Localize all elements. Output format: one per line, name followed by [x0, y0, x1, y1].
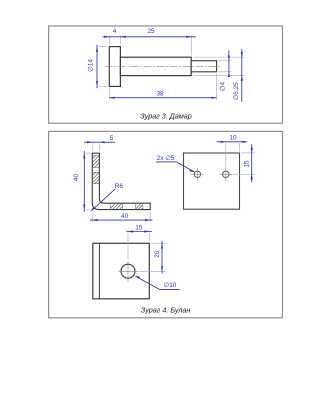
svg-text:R6: R6: [115, 183, 124, 190]
hole right d5: [223, 171, 229, 177]
extension lines dim 5: [92, 144, 99, 152]
hatch lines horizontal leg band2: [136, 203, 143, 209]
dim line dia6.25: [241, 49, 243, 102]
dim line 4 and 25: [103, 36, 197, 38]
arrow at 225.8 pointing right: [221, 141, 226, 143]
arrow at top pointing up: [83, 153, 85, 158]
arrow at 109.3 pointing left: [109, 97, 114, 99]
hatch lines vertical leg band1: [92, 156, 99, 168]
extension lines dim 10: [226, 143, 240, 168]
arrow at bottom pointing down: [96, 81, 98, 86]
arrow above rod pointing down: [228, 56, 230, 61]
arrow at left pointing left: [92, 219, 97, 221]
arrow at bottom pointing down: [83, 204, 85, 209]
arrow at bottom pointing down: [161, 266, 163, 271]
arrow above pointing down: [251, 148, 253, 153]
bolt head: [109, 47, 120, 87]
svg-text:Зураг 4. Булан: Зураг 4. Булан: [141, 305, 191, 314]
arrow at 128 pointing left: [128, 230, 133, 232]
arrow at 99.4 pointing left: [99, 141, 104, 143]
extension lines dim 15 right plate: [232, 153, 255, 174]
arrow at 120.4 pointing left: [120, 36, 125, 38]
svg-text:25: 25: [147, 28, 155, 35]
arrow at 92.25 pointing right: [87, 141, 92, 143]
svg-text:∅4: ∅4: [220, 81, 227, 91]
arrow at top pointing up: [96, 47, 98, 52]
dim line 15 right plate: [251, 144, 253, 182]
dim line 38: [109, 97, 216, 99]
svg-text:∅10: ∅10: [164, 282, 177, 289]
svg-text:2x ∅5: 2x ∅5: [157, 155, 175, 162]
dim line dia14: [96, 45, 98, 88]
bent leg edge line: [98, 243, 100, 298]
hatch lines horizontal leg band1: [110, 203, 122, 209]
dim line dia4: [228, 51, 230, 77]
arrow below pointing up: [251, 174, 253, 179]
svg-text:40: 40: [121, 213, 129, 220]
extension lines dim 38: [109, 74, 216, 100]
svg-text:38: 38: [156, 91, 164, 98]
bolt end rod d4: [191, 61, 216, 72]
svg-text:5: 5: [110, 135, 114, 142]
arrow at 239.5 pointing left: [240, 141, 245, 143]
frame box figure 3: [49, 26, 283, 123]
extension lines dim 20: [140, 243, 166, 271]
svg-text:15: 15: [244, 160, 251, 168]
arrow above shaft pointing down: [241, 52, 243, 57]
svg-text:4: 4: [113, 28, 117, 35]
arrow at 216.6 pointing right: [211, 97, 216, 99]
bottom plate outline: [93, 243, 150, 298]
dim line 5: [84, 141, 115, 143]
arrow at right pointing right: [145, 219, 150, 221]
extension lines dia14: [99, 47, 108, 87]
bolt shaft d6.25: [120, 57, 191, 75]
arrow at 191.3 pointing right: [186, 36, 191, 38]
extension lines dim 40 left: [86, 153, 91, 209]
extension lines top dims: [109, 35, 191, 55]
arrow below rod pointing up: [228, 72, 230, 77]
center cross hole right: [220, 168, 232, 180]
arrow at 109.3 pointing right: [104, 36, 109, 38]
svg-text:10: 10: [229, 135, 237, 142]
svg-text:∅14: ∅14: [88, 59, 95, 72]
dim line 40 bottom: [90, 219, 153, 221]
hole d10: [121, 264, 135, 278]
center cross hole left: [191, 168, 203, 180]
svg-text:20: 20: [154, 250, 161, 258]
L-angle outline: [92, 153, 150, 209]
plate with two holes: [184, 153, 240, 209]
dim line 10: [217, 141, 248, 143]
arrow at top pointing up: [161, 243, 163, 248]
svg-text:15: 15: [135, 225, 143, 232]
svg-text:∅6.25: ∅6.25: [233, 82, 240, 100]
hatch band separators vertical leg: [92, 156, 143, 210]
extension lines dim 15 bottom plate: [128, 233, 149, 260]
hatch lines vertical leg band2: [92, 172, 99, 183]
svg-text:40: 40: [73, 174, 80, 182]
arrow below shaft pointing up: [241, 76, 243, 81]
dim line 40 left: [83, 151, 85, 212]
center cross hole d10: [119, 261, 139, 282]
extension lines right dims: [194, 57, 245, 75]
frame box figure 4: [49, 131, 283, 317]
arrow at 149.3 pointing right: [144, 230, 149, 232]
svg-text:Зураг 3. Дамар: Зураг 3. Дамар: [140, 112, 192, 121]
leader R6: [92, 189, 116, 211]
dim line 15 bottom plate: [126, 231, 152, 233]
hole left d5: [194, 171, 200, 177]
extension lines dim 40 bottom: [92, 212, 150, 222]
dim line 20: [161, 241, 163, 274]
centerline bolt axis: [105, 65, 223, 67]
